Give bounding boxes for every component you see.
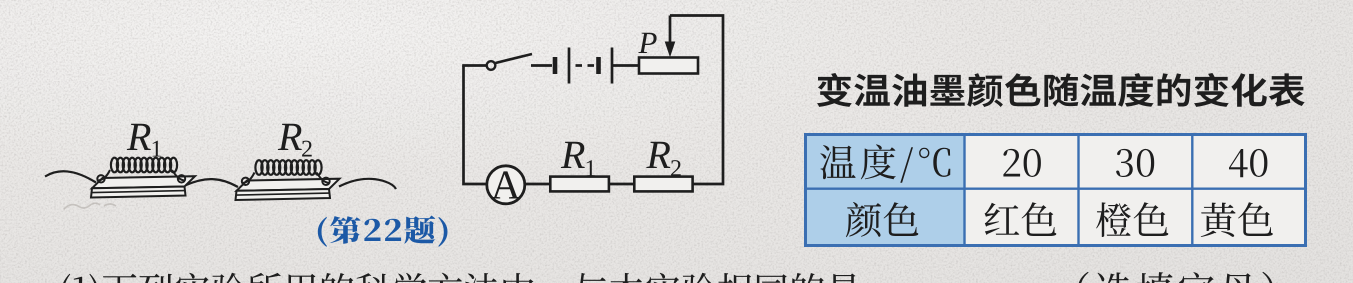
cell 温度/℃ — [820, 144, 950, 182]
resistor R1 (box symbol) — [550, 177, 609, 192]
switch S (open knife switch) — [487, 54, 532, 70]
resistor R2 (box symbol) — [634, 177, 692, 192]
battery (two cells with dashed continuation) — [555, 48, 612, 84]
label R1 — [127, 124, 151, 150]
wire (stub from left corner to switch) — [462, 64, 486, 67]
bottom text line — [61, 273, 860, 283]
caption (第22题) — [318, 216, 448, 247]
cell 橙色 — [1096, 202, 1168, 237]
cell 40 — [1229, 149, 1267, 177]
resistor R2 (coil element on board) — [236, 160, 340, 200]
table — [806, 135, 1306, 246]
pencil scribble — [64, 203, 116, 209]
wire (left lead of R1 figure) — [45, 171, 96, 182]
wire (battery to rheostat) — [613, 64, 639, 67]
table title — [817, 73, 1305, 107]
wire (switch to battery) — [531, 64, 552, 67]
label P — [638, 33, 656, 53]
cell 红色 — [985, 202, 1057, 236]
rheostat P (slide rheostat with arrow slider) — [639, 16, 698, 74]
bottom text tail — [1078, 272, 1274, 283]
resistor R1 (coil element on board) — [91, 158, 195, 198]
wire (circuit outer loop: left, bottom, right, top) — [464, 16, 724, 185]
wire (between R1 and R2 bases) — [185, 179, 238, 187]
ammeter A — [487, 166, 525, 204]
label R2 (circuit) — [646, 142, 670, 168]
cell 20 — [1003, 149, 1041, 177]
label R2 — [278, 124, 302, 150]
label R1 (circuit) — [561, 142, 585, 168]
cell 黄色 — [1201, 202, 1273, 237]
cell 30 — [1116, 149, 1154, 177]
cell 颜色 — [846, 202, 918, 237]
wire (right lead of R2 figure) — [339, 179, 396, 189]
